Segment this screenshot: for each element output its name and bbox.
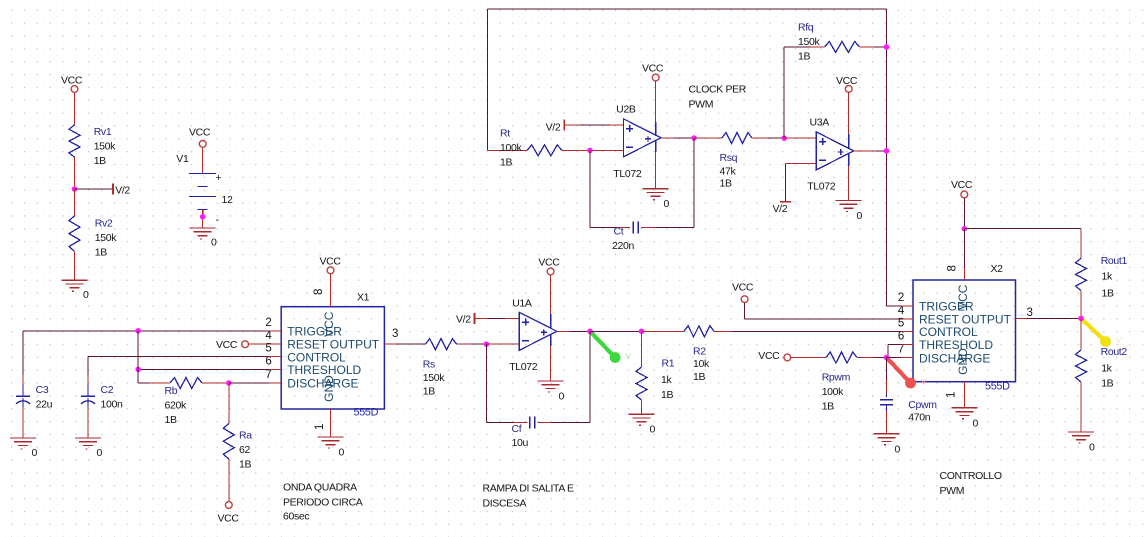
node (U3A output on rail): [884, 148, 890, 154]
wire (feedback loop top): [488, 8, 887, 10]
terminal V/2: [112, 184, 114, 195]
svg-text:0: 0: [857, 210, 863, 222]
svg-text:U1A: U1A: [512, 298, 532, 310]
wire: [486, 422, 514, 424]
power symbol VCC (Ra bottom): [225, 502, 232, 509]
svg-text:Rt: Rt: [500, 128, 510, 140]
svg-text:C3: C3: [36, 384, 49, 396]
svg-text:220n: 220n: [612, 240, 634, 252]
wire: [963, 229, 965, 268]
svg-text:1B: 1B: [95, 247, 107, 259]
svg-text:1B: 1B: [822, 401, 834, 413]
probe (green, ramp output): [590, 331, 615, 357]
svg-text:Rfq: Rfq: [798, 22, 814, 34]
svg-text:0: 0: [664, 198, 670, 210]
resistor Rout1: [1076, 258, 1087, 290]
svg-text:V/2: V/2: [773, 203, 788, 215]
wire: [590, 330, 642, 332]
wire: [744, 303, 746, 319]
wire (loop right vertical rail): [886, 9, 888, 306]
svg-text:6: 6: [898, 330, 904, 342]
wire (X2 pin6 to pin7 tie): [888, 343, 902, 345]
svg-text:1B: 1B: [693, 371, 705, 383]
resistor R1: [636, 367, 647, 400]
pin stubs X2: [901, 305, 913, 307]
node (threshold junction): [135, 367, 141, 373]
svg-text:DISCESA: DISCESA: [483, 498, 527, 510]
svg-text:7: 7: [265, 369, 271, 381]
svg-text:0: 0: [83, 289, 89, 301]
wire (X2 pin 8): [963, 198, 965, 229]
node (U1A - junction): [484, 341, 490, 347]
svg-text:GND: GND: [956, 348, 970, 375]
node (U2B output junction): [691, 135, 697, 141]
wire (to Rb): [138, 382, 149, 384]
svg-text:CONTROLLO: CONTROLLO: [940, 470, 1002, 482]
resistor Ra: [228, 383, 230, 424]
wire: [75, 188, 114, 190]
svg-text:VCC: VCC: [61, 75, 83, 87]
svg-text:VCC: VCC: [642, 63, 664, 75]
junction (V1 minus): [200, 214, 206, 220]
terminal V/2 (U3A -): [780, 201, 791, 203]
svg-text:CLOCK PER: CLOCK PER: [689, 84, 747, 96]
svg-text:V1: V1: [176, 153, 189, 165]
svg-text:VCC: VCC: [189, 127, 211, 139]
wire (U2B output): [661, 137, 674, 139]
svg-text:1k: 1k: [1101, 362, 1112, 374]
svg-text:1B: 1B: [661, 389, 673, 401]
wire (U3A V-): [848, 153, 850, 166]
node V/2 junction: [72, 186, 78, 192]
ground (X2): [951, 407, 977, 409]
wire: [74, 251, 76, 280]
svg-text:7: 7: [898, 344, 904, 356]
node (VCC branch junction): [962, 226, 968, 232]
svg-text:0: 0: [559, 391, 565, 403]
svg-text:Rsq: Rsq: [720, 152, 738, 164]
svg-text:Ra: Ra: [239, 430, 252, 442]
svg-text:1B: 1B: [423, 386, 435, 398]
wire: [87, 398, 89, 408]
wire: [74, 92, 76, 125]
wire: [641, 331, 643, 367]
wire: [641, 227, 656, 229]
svg-text:V/2: V/2: [456, 313, 471, 325]
svg-text:Rv2: Rv2: [95, 218, 113, 230]
ground (U3A): [836, 200, 862, 202]
svg-text:4: 4: [265, 330, 272, 342]
wire: [887, 357, 902, 359]
svg-text:555D: 555D: [354, 407, 379, 419]
wire: [590, 227, 617, 229]
wire: [22, 398, 24, 408]
resistor Rb: [170, 378, 202, 389]
wire: [202, 147, 204, 173]
svg-text:0: 0: [1089, 442, 1095, 454]
capacitor Cf: [529, 417, 531, 429]
svg-text:PWM: PWM: [689, 99, 714, 111]
svg-text:1B: 1B: [1101, 377, 1113, 389]
svg-text:VCC: VCC: [951, 179, 973, 191]
svg-text:VCC: VCC: [732, 282, 754, 294]
capacitor C3: [16, 395, 30, 397]
svg-text:+: +: [216, 172, 222, 184]
svg-text:U2B: U2B: [616, 104, 636, 116]
wire (to X2 CONTROL): [714, 330, 732, 332]
svg-text:PERIODO CIRCA: PERIODO CIRCA: [283, 497, 363, 509]
svg-text:1k: 1k: [1102, 271, 1113, 283]
svg-text:150k: 150k: [798, 36, 820, 48]
svg-text:1B: 1B: [1102, 287, 1114, 299]
node (X2 pin7/discharge junction): [884, 355, 890, 361]
svg-text:ONDA QUADRA: ONDA QUADRA: [283, 482, 357, 494]
ground (R1): [629, 413, 655, 415]
svg-text:0: 0: [97, 447, 103, 459]
capacitor Cpwm: [886, 358, 888, 381]
wire (U1A output): [557, 330, 571, 332]
wire (trigger-threshold tie): [137, 331, 139, 383]
svg-text:100n: 100n: [101, 399, 123, 411]
node (U2B inverting input junction): [587, 148, 593, 154]
node (R1/R2 junction): [639, 329, 645, 335]
svg-text:TL072: TL072: [509, 361, 538, 373]
node (output junction): [1078, 316, 1084, 322]
svg-text:3: 3: [1027, 307, 1033, 319]
wire (X2 pin 1): [963, 382, 965, 408]
resistor Rsq: [694, 137, 722, 139]
wire (X1 output): [396, 343, 425, 345]
resistor Rout2: [1080, 318, 1082, 350]
svg-text:Cpwm: Cpwm: [908, 399, 937, 411]
wire (U3A + input): [784, 137, 816, 139]
svg-text:0: 0: [32, 447, 38, 459]
node (U1A output junction): [587, 329, 593, 335]
wire (X1 pin 8): [330, 274, 332, 307]
capacitor C2: [81, 395, 95, 397]
svg-text:VCC: VCC: [956, 284, 970, 310]
svg-text:2: 2: [265, 317, 271, 329]
svg-text:1B: 1B: [94, 155, 106, 167]
op-amp U3A: [816, 132, 854, 170]
svg-text:X1: X1: [357, 292, 370, 304]
wire: [641, 400, 643, 414]
svg-text:0: 0: [650, 424, 656, 436]
wire (loop left vertical): [487, 9, 489, 150]
wire: [590, 149, 623, 151]
svg-text:Rout2: Rout2: [1101, 346, 1128, 358]
wire: [74, 157, 76, 189]
wire (U3A V+): [848, 92, 850, 134]
svg-text:Rv1: Rv1: [94, 126, 112, 138]
svg-text:U3A: U3A: [810, 117, 830, 129]
wire (Cf right riser): [589, 331, 591, 422]
wire: [457, 343, 471, 345]
wire (X2 output): [1027, 317, 1081, 319]
wire (U3A output): [854, 150, 876, 152]
probe (yellow, pwm output): [1081, 318, 1106, 341]
resistor Rfq: [783, 47, 785, 138]
svg-text:60sec: 60sec: [283, 511, 309, 523]
resistor Rv2: [69, 216, 80, 252]
resistor Rt: [488, 149, 528, 151]
svg-text:X2: X2: [991, 263, 1004, 275]
svg-text:VCC: VCC: [218, 513, 240, 525]
svg-text:100k: 100k: [822, 386, 844, 398]
svg-text:Rs: Rs: [423, 359, 435, 371]
svg-text:47k: 47k: [720, 165, 737, 177]
wire: [537, 422, 551, 424]
svg-text:100k: 100k: [500, 142, 522, 154]
svg-text:TL072: TL072: [613, 168, 642, 180]
wire (U1A V+): [550, 275, 552, 314]
node (Rfq / rail junction): [884, 44, 890, 50]
svg-text:3: 3: [392, 328, 398, 340]
resistor R2: [642, 330, 685, 332]
svg-text:Rpwm: Rpwm: [822, 372, 851, 384]
svg-text:10k: 10k: [693, 358, 710, 370]
capacitor Ct: [632, 222, 634, 234]
op-amp U1A: [519, 312, 557, 350]
resistor Rpwm: [791, 357, 826, 359]
svg-text:V/2: V/2: [546, 122, 561, 134]
svg-text:VCC: VCC: [320, 256, 342, 268]
svg-text:620k: 620k: [165, 400, 187, 412]
node (U3A + input junction): [781, 135, 787, 141]
ground (Rv2): [62, 279, 88, 281]
wire (X1 pin 1): [330, 409, 332, 437]
pin stubs X1: [269, 330, 281, 332]
svg-text:0: 0: [973, 418, 979, 430]
svg-text:DISCHARGE: DISCHARGE: [919, 351, 990, 365]
wire (pin 6 THRESHOLD line): [138, 368, 269, 370]
svg-text:470n: 470n: [908, 412, 930, 424]
svg-text:150k: 150k: [95, 232, 117, 244]
svg-text:R1: R1: [662, 358, 675, 370]
svg-text:10u: 10u: [512, 437, 529, 449]
wire (Ct feedback left): [589, 150, 591, 227]
wire: [1080, 229, 1082, 259]
IC X1 555 timer block: [281, 307, 384, 409]
svg-text:VCC: VCC: [216, 339, 238, 351]
svg-text:TL072: TL072: [807, 181, 836, 193]
svg-text:0: 0: [339, 447, 345, 459]
svg-text:1k: 1k: [661, 374, 672, 386]
resistor Rs: [425, 339, 456, 350]
svg-text:THRESHOLD: THRESHOLD: [287, 363, 361, 377]
wire (U2B V-): [655, 140, 657, 152]
svg-text:R2: R2: [693, 346, 706, 358]
svg-text:150k: 150k: [423, 372, 445, 384]
svg-text:8: 8: [947, 265, 959, 271]
svg-text:VCC: VCC: [538, 257, 560, 269]
wire (U1A V-): [550, 334, 552, 346]
svg-text:C2: C2: [101, 384, 114, 396]
wire: [74, 189, 76, 216]
ground (Cpwm): [874, 433, 900, 435]
wire (VCC branch to Rout1): [964, 228, 1081, 230]
svg-text:12: 12: [222, 194, 233, 206]
node (Rb/Ra/pin7 junction): [226, 380, 232, 386]
wire: [1080, 382, 1082, 432]
op-amp U2B: [623, 119, 661, 157]
svg-text:Cf: Cf: [512, 423, 522, 435]
svg-text:22u: 22u: [36, 399, 53, 411]
IC X2 555 timer block: [913, 280, 1016, 382]
wire (C2 lead / pin 5 CONTROL line): [88, 356, 269, 358]
svg-text:Rout1: Rout1: [1101, 255, 1128, 267]
svg-text:6: 6: [265, 355, 271, 367]
ground (U2B): [643, 188, 669, 190]
wire: [202, 382, 229, 384]
wire: [564, 124, 623, 126]
svg-text:0: 0: [895, 444, 901, 456]
svg-text:RAMPA DI SALITA E: RAMPA DI SALITA E: [483, 483, 574, 495]
wire (pin 2 TRIGGER line): [23, 330, 269, 332]
svg-text:62: 62: [239, 444, 250, 456]
ground (C3): [10, 437, 36, 439]
wire (Cf left): [485, 344, 487, 422]
wire (rail to X2 pin 2): [887, 305, 914, 307]
ground (Rout2): [1068, 431, 1094, 433]
svg-text:1: 1: [946, 392, 958, 398]
battery V1: [189, 173, 216, 175]
svg-text:VCC: VCC: [758, 350, 780, 362]
svg-text:0: 0: [211, 237, 217, 249]
svg-text:8: 8: [313, 289, 325, 295]
node (trigger/C3 junction): [135, 328, 141, 334]
svg-text:VCC: VCC: [322, 311, 336, 337]
svg-text:GND: GND: [322, 375, 336, 402]
svg-text:555D: 555D: [985, 381, 1010, 393]
svg-text:Ct: Ct: [614, 226, 624, 238]
svg-text:1B: 1B: [165, 414, 177, 426]
resistor Rv1: [69, 125, 80, 157]
svg-text:Rb: Rb: [165, 385, 178, 397]
ground (C2): [75, 437, 101, 439]
svg-text:V/2: V/2: [115, 185, 130, 197]
svg-text:1B: 1B: [720, 178, 732, 190]
ground (U1A): [538, 380, 564, 382]
svg-text:1B: 1B: [798, 51, 810, 63]
probe (red, pwm control): [887, 358, 911, 384]
wire: [228, 459, 230, 502]
svg-text:1: 1: [314, 424, 326, 430]
svg-text:150k: 150k: [94, 141, 116, 153]
wire (Ct feedback right): [693, 138, 695, 228]
wire (C3 lead): [22, 331, 24, 375]
svg-text:1B: 1B: [500, 157, 512, 169]
wire: [1080, 291, 1082, 319]
wire: [475, 317, 520, 319]
ground (V1, node 0): [190, 227, 216, 229]
svg-text:2: 2: [898, 292, 904, 304]
wire: [202, 210, 204, 228]
wire (U2B V+): [655, 81, 657, 122]
wire: [486, 343, 519, 345]
wire (pin 7 DISCHARGE): [229, 382, 269, 384]
ground (X1): [318, 436, 344, 438]
svg-text:1B: 1B: [239, 459, 251, 471]
svg-text:PWM: PWM: [940, 485, 965, 497]
wire (U3A - input to V/2): [785, 163, 816, 165]
